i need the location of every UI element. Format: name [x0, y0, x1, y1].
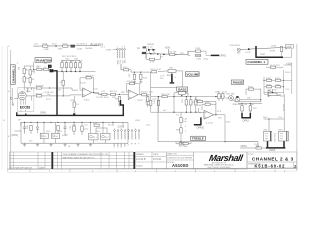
svg-text:R1.03: R1.03	[80, 83, 86, 85]
node dot k1	[63, 95, 64, 96]
relay RL1	[89, 133, 98, 140]
thick divider 1	[52, 152, 54, 169]
node dots bank	[61, 71, 62, 72]
resistor R111	[276, 79, 281, 81]
jack SK3	[279, 131, 289, 141]
node dot d2	[157, 53, 159, 55]
label box VOLUME	[185, 72, 199, 77]
node dots wire	[158, 96, 159, 97]
resistor R10	[152, 71, 157, 73]
label box CHANNEL 1	[246, 59, 268, 64]
resistor R67	[256, 147, 261, 149]
svg-text:1N4007: 1N4007	[147, 44, 155, 46]
resistor R34 right	[218, 94, 220, 99]
label box TREBLE	[191, 136, 206, 141]
svg-text:2PA5.2: 2PA5.2	[233, 103, 241, 106]
wire cathode stub	[31, 88, 33, 101]
svg-text:R19 1K: R19 1K	[110, 91, 118, 93]
svg-text:JCM2000 DSL100 SERIES: JCM2000 DSL100 SERIES	[167, 158, 193, 160]
resistor R101	[43, 45, 48, 47]
wire thick treble L	[194, 117, 202, 124]
svg-text:TL-072L: TL-072L	[205, 122, 214, 124]
connector pins row	[114, 130, 116, 140]
wire bank bus	[57, 71, 96, 73]
resistor R51	[57, 125, 59, 130]
svg-text:PHASE: PHASE	[233, 80, 243, 84]
frame left inner line	[10, 50, 12, 169]
wire r4r5 chain	[29, 67, 31, 87]
pin labels	[113, 143, 140, 148]
grid ruler numbers	[49, 171, 286, 173]
svg-text:Marshall: Marshall	[208, 153, 244, 163]
node dot u2out	[215, 114, 216, 115]
svg-text:L10B: L10B	[77, 49, 82, 51]
junction blob phantom	[50, 70, 53, 72]
wire top link	[24, 62, 33, 69]
wire c52 c53	[74, 122, 82, 135]
wire c51 r51	[58, 131, 65, 134]
scan edge artifact line	[1, 46, 3, 170]
wire rail right end	[113, 122, 128, 143]
svg-text:C136: C136	[196, 58, 202, 60]
resistor R32	[195, 100, 197, 105]
svg-text:10.5.00: 10.5.00	[153, 158, 162, 161]
resistor R6	[170, 53, 175, 55]
wire treble chain	[180, 112, 182, 142]
node dot tone1	[173, 96, 174, 97]
svg-text:LED: LED	[123, 143, 125, 148]
frame right line	[296, 44, 298, 171]
node dot j1	[268, 118, 269, 119]
capacitor C136	[196, 54, 201, 56]
label box BASS	[177, 87, 188, 92]
svg-text:PHANTOM: PHANTOM	[36, 58, 52, 62]
resistor R25t	[180, 128, 182, 133]
resistor R8 anode	[36, 87, 41, 89]
wire treble left drop	[158, 97, 258, 142]
resistor R2 chain	[23, 68, 25, 73]
svg-text:R63 1K: R63 1K	[282, 104, 284, 112]
resistor R20 shunt	[118, 97, 120, 102]
node dot a1	[49, 87, 50, 88]
svg-text:47K: 47K	[244, 104, 248, 106]
wire r1c1	[34, 69, 52, 73]
svg-text:CHANNEL 2 & 3: CHANNEL 2 & 3	[252, 157, 294, 162]
svg-text:A500K: A500K	[167, 74, 174, 77]
resistor R22	[65, 63, 67, 68]
wire c15 loop	[127, 84, 140, 95]
resistor R121	[280, 47, 282, 52]
label box FX LOOP	[286, 44, 294, 48]
wire r106	[147, 95, 149, 105]
svg-text:C27 100p: C27 100p	[179, 146, 189, 148]
volume pot loop wire	[151, 71, 183, 88]
ground r106	[146, 105, 149, 107]
wiper stem VR1 (dark)	[171, 74, 173, 83]
label box CHANNEL 3 (vertical)	[11, 65, 16, 85]
resistor R110	[267, 79, 272, 81]
svg-text:MODIFICATION: MODIFICATION	[17, 166, 32, 169]
resistor R29 left	[150, 100, 152, 105]
node dot d1	[150, 53, 152, 55]
resistor R105	[142, 94, 147, 96]
svg-text:A5100D: A5100D	[172, 163, 189, 168]
resistor R31	[190, 100, 192, 105]
valve pin leads	[21, 88, 28, 112]
svg-text:LK10: LK10	[135, 120, 141, 122]
resistor R30 on wire	[162, 96, 167, 98]
svg-text:R30 C30: R30 C30	[162, 94, 171, 96]
svg-text:R1.0 C1.07: R1.0 C1.07	[151, 69, 162, 71]
svg-text:4.7K: 4.7K	[150, 62, 155, 64]
svg-text:(OPA): (OPA)	[12, 134, 19, 137]
node dots rail	[173, 112, 174, 113]
wire thick stub at x16.8	[17, 112, 26, 115]
wire tone left vertical	[150, 87, 152, 112]
wire u2 io	[199, 108, 226, 142]
svg-text:CON2: CON2	[106, 49, 113, 51]
node dot in1	[33, 69, 34, 70]
svg-text:R18 47K: R18 47K	[86, 75, 95, 77]
svg-text:R66 C52: R66 C52	[273, 134, 275, 143]
wire right edge vertical	[284, 63, 292, 94]
svg-text:DRAWN: DRAWN	[136, 153, 144, 156]
dark emitter blob	[236, 96, 238, 98]
potentiometer VR2 bass	[178, 91, 185, 94]
svg-text:22K: 22K	[180, 53, 184, 55]
wiper base plate	[170, 82, 175, 83]
svg-text:10K: 10K	[247, 98, 251, 100]
label box PHASE	[231, 80, 243, 84]
node dots right net	[263, 80, 264, 81]
resistor R18 feedback	[86, 77, 91, 79]
svg-text:DATE: DATE	[39, 166, 45, 169]
svg-text:GND: GND	[116, 60, 118, 65]
wire relays	[91, 122, 108, 143]
capacitor C1	[44, 68, 49, 70]
connector CON2 pins	[101, 46, 127, 69]
capacitor C50	[23, 122, 26, 132]
wire grid input	[15, 97, 19, 99]
capacitor C24 row2	[205, 103, 210, 105]
svg-text:C110: C110	[275, 84, 281, 86]
svg-text:C118 R120: C118 R120	[230, 45, 241, 47]
resistor R13 cathode	[36, 95, 41, 97]
resistor R102	[63, 45, 68, 47]
valve section box	[18, 88, 34, 112]
transistor TR5	[229, 96, 234, 101]
svg-text:R8 100K: R8 100K	[36, 86, 45, 88]
wire thick OPA2 link	[211, 54, 220, 56]
svg-text:OPA5: OPA5	[269, 149, 276, 152]
svg-text:R2.1 R2.2 R2.3: R2.1 R2.2 R2.3	[62, 56, 77, 58]
op-amp U2 treble	[204, 110, 214, 119]
svg-text:R1.14: R1.14	[285, 72, 291, 74]
capacitor C113	[271, 66, 276, 68]
resistor R50	[30, 125, 32, 130]
resistor R112	[267, 86, 272, 88]
svg-text:BLETCHLEY ENGLAND: BLETCHLEY ENGLAND	[208, 166, 231, 169]
diode D2	[153, 49, 156, 51]
op-amp U1A	[83, 88, 92, 97]
svg-text:THIS DRAWING REMAINS THE PROPE: THIS DRAWING REMAINS THE PROPERTY OF	[63, 153, 109, 156]
svg-text:VOLUME: VOLUME	[186, 72, 199, 76]
input jack J1	[10, 97, 12, 99]
wire u2out vertical	[215, 104, 217, 115]
svg-text:OPA2: OPA2	[220, 55, 227, 58]
node dot ch1	[248, 48, 250, 50]
ground r14	[139, 82, 142, 84]
node dot top1	[55, 45, 56, 46]
svg-text:R112: R112	[266, 84, 272, 86]
wire treble out right	[225, 142, 258, 148]
junction blob r16 bus	[73, 113, 75, 115]
wire opa3 top	[238, 104, 262, 113]
wire c27	[176, 142, 188, 144]
svg-text:+15V: +15V	[286, 62, 292, 65]
node dot t2	[224, 141, 225, 142]
wire jack feeds	[264, 119, 285, 131]
svg-text:GND: GND	[120, 143, 122, 148]
svg-text:R101: R101	[43, 43, 49, 45]
wire regs	[44, 122, 56, 143]
node dot fb	[93, 92, 94, 93]
svg-text:TL072L: TL072L	[96, 97, 104, 99]
capacitor C53	[81, 126, 83, 131]
svg-text:SW: SW	[123, 60, 125, 63]
wire r16 to bus	[73, 96, 75, 115]
wire gnd stubs	[25, 143, 91, 144]
grid margin letters	[4, 46, 11, 138]
op-amp U1B	[128, 90, 138, 100]
resistor R115	[248, 88, 253, 90]
wire opamp out	[92, 93, 102, 95]
diode D101	[71, 45, 75, 48]
capacitor C13	[180, 118, 182, 123]
wire thick OPA3 U	[242, 113, 250, 118]
revision table middle	[53, 152, 133, 169]
wire ch1 top	[240, 48, 280, 50]
svg-text:TR5 TR6: TR5 TR6	[226, 94, 235, 96]
wire r20 gnd	[119, 102, 121, 104]
wire center vertical	[173, 97, 175, 113]
svg-text:C1.05 R1.5: C1.05 R1.5	[77, 44, 88, 46]
svg-text:TL072: TL072	[84, 100, 91, 102]
svg-text:C121: C121	[46, 99, 52, 101]
wire r115	[246, 89, 261, 95]
resistor R14	[140, 74, 142, 79]
svg-text:DATE: DATE	[153, 153, 159, 156]
svg-text:R110: R110	[266, 78, 272, 80]
wire thick channel1 L	[255, 46, 283, 57]
thick divider 2	[134, 152, 136, 169]
wire interstage	[99, 93, 129, 95]
drawing info box	[166, 152, 194, 169]
svg-text:R102: R102	[63, 43, 69, 45]
wire c136 to thick	[188, 51, 211, 55]
capacitor C22	[185, 100, 187, 105]
svg-text:1PA2: 1PA2	[260, 53, 266, 56]
wire top heater feed	[33, 45, 99, 48]
svg-text:OPA50: OPA50	[197, 127, 205, 130]
resistor R1	[37, 68, 42, 70]
wire main feed	[146, 53, 177, 56]
wire to C136	[175, 51, 202, 54]
wire vr6	[264, 90, 280, 96]
node dots rail	[24, 122, 114, 123]
svg-text:SCALE: SCALE	[136, 165, 143, 168]
diode D1	[148, 49, 151, 51]
pin numbers	[114, 128, 137, 130]
capacitor C19	[157, 100, 159, 105]
resistor R64 opa3 left	[241, 106, 243, 111]
svg-text:C135: C135	[195, 48, 201, 50]
svg-text:CHANNEL 1: CHANNEL 1	[247, 60, 265, 64]
frame bottom line	[7, 168, 297, 169]
svg-text:OPA1: OPA1	[40, 112, 47, 115]
svg-text:MARSHALL AMPLIFICATION PLC: MARSHALL AMPLIFICATION PLC	[63, 156, 95, 159]
resistor R5	[29, 78, 31, 83]
wire inv input	[70, 88, 83, 96]
diode D50	[36, 127, 38, 129]
frame bottom ruler line	[7, 171, 297, 172]
wire right stack	[219, 91, 223, 101]
wire c113	[266, 66, 284, 68]
svg-text:R13 1K: R13 1K	[36, 94, 44, 96]
resistor R3	[23, 77, 25, 82]
wire opa4 feed	[240, 147, 266, 149]
wire con2 pin2 down	[120, 64, 122, 70]
ground r20	[118, 104, 121, 106]
resistor R19	[111, 93, 116, 95]
svg-text:100K: 100K	[26, 91, 31, 93]
ground symbols rail	[23, 145, 26, 147]
svg-text:OPA4: OPA4	[241, 145, 248, 148]
svg-text:CHANNEL 3: CHANNEL 3	[11, 66, 15, 83]
wire right drop x284	[280, 94, 284, 119]
jack SK2	[264, 131, 272, 141]
wire thick bus from phantom down	[16, 71, 123, 116]
svg-text:ECC83: ECC83	[20, 106, 30, 110]
valve V1 ECC83	[18, 92, 26, 100]
resistor R23	[70, 63, 72, 68]
wire supply rail bottom	[21, 142, 128, 144]
wire volume row	[121, 64, 151, 72]
node dot is1	[119, 94, 120, 95]
revision table left	[10, 152, 52, 169]
capacitor C110	[276, 86, 281, 88]
svg-text:10K: 10K	[218, 118, 222, 120]
potentiometer VR1 volume	[168, 70, 176, 73]
capacitor C51	[64, 122, 67, 132]
drawn/checked block	[135, 152, 166, 169]
svg-text:+15V: +15V	[62, 134, 68, 137]
capacitor C25 right	[222, 94, 224, 99]
svg-text:L13B: L13B	[44, 49, 49, 51]
wire from top row to diode cluster	[145, 48, 147, 58]
svg-text:C1.13 R1.1: C1.13 R1.1	[270, 65, 281, 67]
wire u1b out	[138, 94, 151, 96]
svg-text:TREBLE: TREBLE	[192, 137, 204, 141]
resistor R24	[74, 63, 76, 68]
relay RL2	[101, 133, 110, 140]
svg-text:LOOP: LOOP	[286, 46, 292, 48]
svg-text:R6 10K: R6 10K	[170, 51, 178, 53]
wire c8	[62, 72, 64, 96]
title box	[247, 152, 297, 169]
capacitor C12	[133, 74, 135, 79]
svg-text:A.S./M.B: A.S./M.B	[136, 158, 146, 161]
svg-text:OPA3: OPA3	[243, 120, 250, 123]
node dots opa3	[241, 103, 242, 104]
svg-text:USED ON: USED ON	[167, 154, 177, 156]
pin labels con2	[116, 60, 125, 65]
wire hang components	[186, 97, 196, 113]
resistor R7	[149, 58, 154, 60]
transistor Q101 dark cluster	[143, 46, 146, 48]
wire phase out	[226, 89, 261, 102]
capacitor C135	[196, 50, 201, 52]
wire c19	[158, 97, 160, 113]
wire c12 r14 gnd	[134, 72, 140, 81]
svg-text:R115: R115	[248, 87, 254, 89]
svg-text:C10B: C10B	[271, 45, 277, 47]
wiper arrow VR2	[181, 95, 183, 97]
node dot ph1	[260, 99, 261, 100]
wire bank stubs	[62, 61, 80, 72]
capacitor C8	[62, 80, 64, 85]
capacitor C52	[73, 126, 75, 131]
resistor R16	[73, 102, 75, 107]
wire rail left ends	[15, 122, 22, 143]
resistor R21	[61, 63, 63, 68]
capacitor C27 bottom	[180, 143, 185, 145]
grid ruler ticks	[30, 169, 275, 172]
svg-text:470R: 470R	[270, 51, 275, 53]
wire diode stubs	[150, 50, 155, 54]
wire cathode row	[26, 95, 70, 97]
diode D3 mark	[49, 65, 52, 67]
resistor R65 opa3 right	[249, 106, 251, 111]
svg-text:K51B-60-02: K51B-60-02	[255, 164, 286, 169]
wire feedback rows	[196, 97, 216, 110]
svg-text:+30V: +30V	[164, 46, 170, 49]
component cluster above title	[183, 143, 188, 145]
wire tone input	[151, 96, 225, 98]
regulator U5	[40, 133, 48, 138]
capacitor C15 top	[130, 83, 135, 85]
node dot v1	[134, 72, 135, 73]
resistor R25	[79, 63, 81, 68]
wire thick OPA5 link	[266, 141, 285, 148]
node dot v2	[140, 72, 141, 73]
resistor R12	[124, 69, 129, 71]
loop wire below	[146, 54, 160, 60]
transistor TR6	[235, 97, 240, 102]
svg-text:TL072: TL072	[137, 100, 144, 102]
regulator U6	[52, 133, 60, 138]
wiper arrow VR6	[272, 91, 274, 93]
wire anode row	[26, 88, 72, 93]
ground c12	[133, 82, 136, 84]
svg-text:1M: 1M	[19, 67, 21, 70]
wire supply rail top	[21, 121, 128, 123]
transistor Q4	[237, 48, 240, 51]
wire c30	[181, 142, 191, 144]
svg-text:D1 D2: D1 D2	[147, 47, 154, 49]
op-amp U7	[268, 90, 275, 96]
node dot t1	[180, 141, 181, 142]
